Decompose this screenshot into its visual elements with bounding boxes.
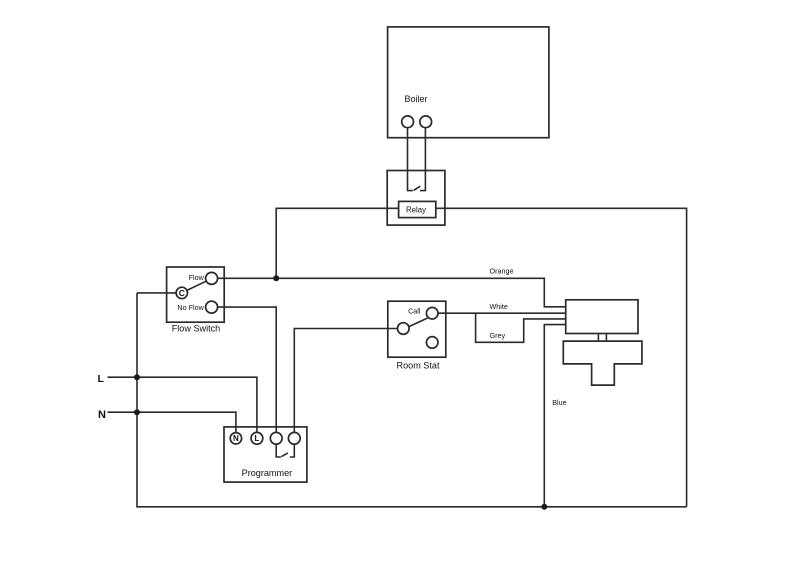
flow switch Flow terminal [206, 272, 218, 284]
programmer terminal L [251, 432, 263, 444]
wire flow switch C to left rail [137, 292, 176, 294]
svg-text:Flow Switch: Flow Switch [172, 324, 221, 334]
svg-text:Call: Call [408, 307, 421, 316]
svg-text:Flow: Flow [189, 273, 205, 282]
boiler terminal 2 [420, 116, 432, 128]
flow switch blade C to Flow [187, 281, 206, 290]
svg-text:Programmer: Programmer [242, 468, 293, 478]
flow switch common terminal C [176, 287, 187, 298]
relay U1 outer box [387, 171, 445, 226]
room stat blade common to Call [409, 318, 428, 327]
svg-text:Relay: Relay [406, 205, 426, 214]
node A junction dot [273, 275, 279, 281]
svg-text:White: White [490, 302, 508, 311]
wire boiler terminal 2 to relay switch [420, 128, 426, 191]
junction dot L on left rail [134, 374, 140, 380]
svg-text:Grey: Grey [490, 331, 506, 340]
junction dot blue wire to bottom rail [541, 504, 547, 510]
svg-text:L: L [254, 434, 259, 443]
wire grey: branch from white to valve motor [476, 313, 566, 342]
wire No Flow terminal to programmer terminal 3 [218, 307, 277, 432]
valve body [563, 341, 642, 385]
wire room stat common to programmer terminal 4 [294, 329, 397, 433]
wire N supply to programmer terminal N [108, 412, 236, 432]
programmer terminal N [230, 433, 241, 444]
svg-text:C: C [179, 288, 185, 298]
relay switch blade [414, 186, 421, 190]
programmer terminal 4 [288, 432, 300, 444]
svg-text:No Flow: No Flow [177, 303, 204, 312]
wire blue: valve motor to bottom rail [544, 325, 565, 507]
wire white: room stat Call to valve motor [438, 312, 566, 314]
room stat RS1 box [388, 301, 446, 357]
wire bottom rail [137, 293, 687, 507]
programmer switch right leg [290, 444, 295, 457]
wire orange: Flow terminal to valve motor [218, 278, 566, 307]
programmer terminal 3 [270, 432, 282, 444]
relay coil box [399, 201, 436, 217]
programmer switch blade [281, 453, 288, 457]
valve neck left [597, 334, 599, 342]
programmer P1 box [224, 427, 307, 482]
svg-text:L: L [98, 373, 105, 385]
svg-text:N: N [98, 409, 106, 421]
flow switch S1 box [167, 267, 225, 322]
wire relay coil right to right rail [436, 208, 687, 507]
valve neck right [605, 334, 607, 342]
wire L supply to programmer terminal L [108, 377, 257, 432]
junction dot N on left rail [134, 409, 140, 415]
valve motor V1 actuator box [566, 300, 638, 334]
svg-text:Boiler: Boiler [404, 94, 427, 104]
svg-text:Blue: Blue [552, 398, 566, 407]
svg-text:N: N [233, 434, 239, 443]
flow switch No Flow terminal [206, 301, 218, 313]
svg-text:Orange: Orange [490, 266, 514, 275]
wire relay coil left to node A [276, 208, 398, 278]
wire boiler terminal 1 to relay switch [408, 128, 413, 191]
boiler terminal 1 [402, 116, 414, 128]
programmer switch left leg [276, 444, 281, 457]
room stat Call terminal [426, 307, 438, 319]
boiler B1 box [388, 27, 549, 138]
room stat spare terminal [426, 337, 438, 349]
svg-text:Room Stat: Room Stat [397, 361, 440, 371]
room stat common terminal [398, 323, 410, 335]
